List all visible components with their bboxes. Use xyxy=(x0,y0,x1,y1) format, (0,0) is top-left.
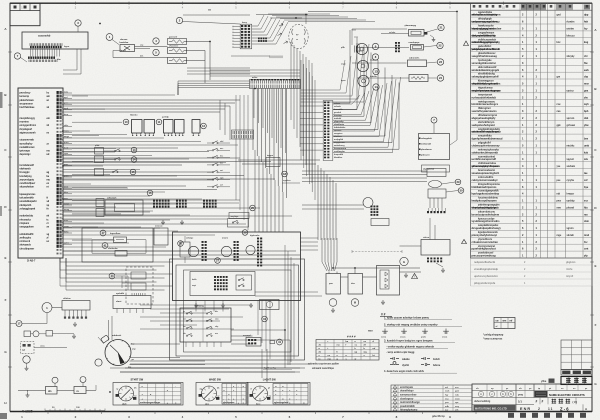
power select switch box xyxy=(120,45,135,52)
fan wires from right strip to top xyxy=(333,103,352,105)
vertical buses center xyxy=(257,300,259,335)
circled 10 xyxy=(123,119,129,125)
left terminal wire stubs xyxy=(62,91,63,93)
vertical stubs between harness strips xyxy=(30,49,32,57)
wiper motor circle 3 xyxy=(358,75,369,86)
key switch pointer wedge xyxy=(118,353,125,364)
relay logic inner dividers xyxy=(202,308,204,342)
nested enclosure middle xyxy=(176,265,299,356)
key switch terminals ticks xyxy=(129,356,130,358)
fuse callout 4 xyxy=(153,38,159,44)
fuse box row2 xyxy=(168,48,187,54)
wires upper right from strips to lamp area xyxy=(301,89,341,91)
starter relay pins xyxy=(427,258,429,260)
bus bundle right side vertical to battery funnel xyxy=(317,165,319,240)
relay logic bottom pins xyxy=(185,342,187,347)
inner box E2 with connector strips xyxy=(190,272,255,296)
pins chain to ground xyxy=(436,263,443,267)
small chain upper-left area xyxy=(24,331,31,337)
circled 16 xyxy=(147,190,153,196)
seal dark stamp xyxy=(535,391,548,397)
circled 21 xyxy=(438,24,444,30)
wire label left of lamp box xyxy=(381,33,409,35)
wires left from center strip xyxy=(178,80,250,82)
wires from relay logic box down-right xyxy=(231,329,285,331)
round connector top right dashed xyxy=(289,24,308,48)
wires into key switch from top xyxy=(108,320,110,341)
circled 7b lamp checker xyxy=(431,117,437,123)
fuse pair enclosure box xyxy=(82,228,153,262)
pin grid trio A xyxy=(153,200,155,202)
delta revision marker 2 xyxy=(462,240,467,244)
wires from key switch to right xyxy=(131,343,181,345)
left-going wires from right strip xyxy=(300,105,323,107)
control panel enclosure xyxy=(173,232,301,301)
drawing frame border xyxy=(10,2,592,4)
cab harness box top-left xyxy=(22,32,88,49)
wires from power select to fuses xyxy=(135,46,168,48)
fuse callout 5 xyxy=(153,49,159,55)
label under lamp checker xyxy=(422,165,450,172)
bus wires right of E1 xyxy=(300,237,318,239)
vertical bundle into E1 top xyxy=(254,150,256,232)
switch with circled 14 xyxy=(114,159,115,160)
starter relay box xyxy=(421,240,450,256)
top-left approval table xyxy=(10,3,40,26)
lamp connector pins xyxy=(424,32,427,35)
generator box xyxy=(377,266,400,296)
circled 14b xyxy=(373,84,379,90)
heater box xyxy=(408,60,427,67)
battery 2 xyxy=(348,274,363,295)
wires lower-left xyxy=(52,307,62,309)
legend symbol pair 1 xyxy=(390,357,399,360)
circled 28 xyxy=(242,230,248,236)
wires relay logic to fuel solenoid xyxy=(231,335,253,337)
fan into right components xyxy=(352,29,356,31)
bus wires center vertical xyxy=(235,95,237,200)
room lamp box xyxy=(409,30,425,37)
wires into starter relay xyxy=(400,245,422,247)
small meter circle lower-left xyxy=(23,356,30,363)
title block revision grid xyxy=(561,340,592,370)
resistor grid box xyxy=(409,75,428,82)
wire stub labels right of column xyxy=(63,92,72,94)
switch with circled 15 xyxy=(112,171,113,172)
extra grounds row under E1 xyxy=(195,303,197,305)
grounds under battery area xyxy=(332,308,334,310)
oval meter xyxy=(429,180,442,187)
circled 8 xyxy=(372,54,378,60)
circled 25 xyxy=(250,205,256,211)
hour meter circle xyxy=(42,303,52,313)
resistor bank pins xyxy=(64,310,66,317)
circled 31 xyxy=(262,316,268,322)
fan from top connector extended xyxy=(268,13,330,15)
wire oval meter to circles xyxy=(442,182,456,184)
flasher unit boxes xyxy=(95,148,104,155)
wire bundle fuses to center xyxy=(187,67,250,69)
parts table rows xyxy=(471,16,593,18)
scan edge smudge left 1 xyxy=(0,92,3,108)
resistor bank box xyxy=(62,301,90,311)
nested enclosure inner xyxy=(184,270,292,352)
safety relay circle xyxy=(363,198,373,208)
circled 24 xyxy=(437,75,443,81)
wiper motor circle 1 xyxy=(356,43,367,54)
long horizontal runs into enclosure zone xyxy=(63,195,150,197)
wires to relay boxes right mid xyxy=(302,170,427,172)
hanrei legend table xyxy=(316,340,379,361)
circled 27 xyxy=(215,258,221,264)
relay logic box xyxy=(180,308,231,342)
legend symbol pair 2 xyxy=(421,357,430,360)
calibration checker strip bottom right xyxy=(508,413,514,418)
wiper amp box xyxy=(411,45,424,51)
kessen-zu drawing title bold glyphs xyxy=(552,398,557,400)
fuse element A xyxy=(114,237,127,243)
title block main body xyxy=(472,384,592,412)
wiper motor circle 2 xyxy=(357,60,368,71)
relay logic contacts col1 xyxy=(186,313,187,314)
sensor unit dashed box lower-left xyxy=(21,342,35,354)
left hook stubs of top connector xyxy=(234,26,241,28)
pin grid trio C xyxy=(203,200,205,202)
verticals relay to hanging pins xyxy=(429,198,431,208)
switch with circled 13 xyxy=(114,150,115,151)
drawing title box GIFUZU xyxy=(561,377,592,385)
zone tick marks top border xyxy=(75,2,77,5)
zone tick marks left and right borders xyxy=(8,51,12,53)
cross bus center to right xyxy=(238,159,320,161)
left terminal pin column xyxy=(57,91,59,94)
tall resistor box xyxy=(180,242,190,257)
dimension line above batteries xyxy=(352,251,402,253)
fuse element B xyxy=(115,251,127,257)
scan corner blob bottom-left xyxy=(0,413,7,419)
top bus wires above connector xyxy=(256,14,308,16)
circled 26 xyxy=(178,241,184,247)
wiper control box xyxy=(105,200,143,215)
tiny aux box xyxy=(270,341,275,344)
relay cluster 24V no.2 xyxy=(164,120,174,134)
switch contact ladder xyxy=(212,142,213,143)
small connector by wiper amp xyxy=(395,42,397,44)
battery funnel wires xyxy=(321,238,323,262)
wires fanning right from top connector xyxy=(252,25,258,27)
fuse box row3 xyxy=(168,58,187,64)
fuel solenoid box xyxy=(246,338,261,347)
battery 2 terminal circle xyxy=(351,299,359,307)
bottom series components xyxy=(52,377,58,383)
circled 41a xyxy=(102,243,108,249)
fuse box row1 xyxy=(168,39,187,45)
right main vertical connector strip xyxy=(323,101,333,161)
misc stub wires dense left-mid xyxy=(72,95,88,97)
parts list table xyxy=(471,3,593,258)
long cross wires upper xyxy=(63,99,240,101)
circled 22 xyxy=(437,42,443,48)
vertical bundle from round connector xyxy=(290,42,292,120)
key switch mount tab xyxy=(101,335,110,343)
pin grid right of top connector xyxy=(258,38,260,40)
circled 17 xyxy=(16,321,22,327)
drawing name cells xyxy=(539,398,541,405)
relay box right mid2 xyxy=(428,189,446,198)
battery 1 terminal circle xyxy=(329,299,337,307)
main horizontal pin strip center xyxy=(250,80,301,89)
wire bundle down from center strip xyxy=(253,89,255,119)
pin grid trio B xyxy=(176,200,178,202)
parts table header row xyxy=(471,9,593,11)
key switch rotary circle xyxy=(105,340,131,366)
top long bus wire xyxy=(183,14,250,16)
wires left box bottom to E1 xyxy=(60,261,173,263)
extended vertical bundle below center strip xyxy=(252,89,254,151)
buzzer circle left of key switch xyxy=(95,359,102,366)
horizontal wire runs left-to-center xyxy=(63,130,90,132)
wires between batteries xyxy=(341,276,349,278)
connector pin strip B below box xyxy=(28,57,30,59)
wires from E1 down to bottom tables xyxy=(195,301,197,312)
circled 12 xyxy=(201,123,207,129)
horn relay small box xyxy=(95,169,104,176)
curve wires top left to center xyxy=(63,94,175,96)
arrow marks between connector halves xyxy=(279,23,283,26)
warning triangle near generator xyxy=(412,274,418,279)
long vertical buses right-center xyxy=(284,245,286,368)
ground under pin grids xyxy=(162,220,164,222)
circled 13b xyxy=(373,68,379,74)
long bottom buses xyxy=(130,363,310,365)
stamp circles row xyxy=(478,391,483,396)
bus wires upper mid xyxy=(210,69,300,71)
title block approval header dark cells xyxy=(561,370,592,376)
relay with circled 18 xyxy=(266,158,280,167)
heater relay box lower xyxy=(113,296,151,309)
safety relay box xyxy=(371,219,389,226)
circled 30 xyxy=(458,188,464,194)
upper-right big fan sweep xyxy=(333,102,350,104)
wires E1 to batteries xyxy=(255,295,322,297)
circled callout 2 top middle xyxy=(176,17,182,23)
wiper unit boxes xyxy=(96,199,104,207)
revision history table xyxy=(391,385,472,412)
scan speck top middle xyxy=(208,9,211,11)
wire from components to left xyxy=(352,28,407,30)
cab harness connector pin strip A xyxy=(29,43,31,46)
left harness terminal box xyxy=(18,88,63,258)
circled 11 xyxy=(156,119,162,125)
circled 41 xyxy=(277,339,283,345)
circled callout 3 xyxy=(75,20,81,26)
hanging pin row xyxy=(427,211,429,213)
delta revision marker next to table xyxy=(464,41,469,46)
generator circle M xyxy=(400,257,408,265)
inspection stamp box xyxy=(494,318,515,329)
circled 47 xyxy=(100,230,106,236)
safety relay pins xyxy=(371,206,373,208)
circled 9 xyxy=(372,43,378,49)
nested enclosure outer xyxy=(170,259,305,360)
top center vertical connector strip xyxy=(241,25,243,27)
branch tree with circled 43 xyxy=(109,273,115,279)
dashed aux unit box left xyxy=(126,267,153,304)
wires bottom area horizontal runs xyxy=(140,304,252,306)
relay logic contacts col2 xyxy=(206,313,207,314)
long bus wires bottom xyxy=(110,367,300,369)
title block small top cells xyxy=(471,384,473,391)
wires bottom series xyxy=(18,389,46,391)
hatch row below connector xyxy=(269,56,271,59)
switch box in E2 xyxy=(236,275,252,290)
circled callout 1 xyxy=(106,34,113,41)
single relay right xyxy=(192,120,200,134)
wires battery to starter xyxy=(355,267,420,269)
parts table header dark cell clusters xyxy=(521,4,546,10)
vertical bundle x300 xyxy=(300,60,302,160)
circled callout 7 left xyxy=(14,53,20,59)
relay box right mid xyxy=(427,169,446,177)
lamp checker unit box xyxy=(419,134,450,160)
scan edge smudge left 2 xyxy=(0,206,2,216)
circled 23 xyxy=(437,59,443,65)
battery 1 xyxy=(326,274,341,295)
horizontal pin strip H2 xyxy=(232,130,254,139)
long mid horizontal buses xyxy=(63,147,178,149)
circled 29 xyxy=(455,179,461,185)
tiny junction dots xyxy=(62,99,63,100)
horn relay label box xyxy=(229,213,249,219)
relay small box above fuel solenoid xyxy=(260,300,280,310)
battery relay box xyxy=(154,228,168,245)
ground under resistor bank xyxy=(74,322,76,324)
wire pair down from harness box xyxy=(76,49,78,70)
